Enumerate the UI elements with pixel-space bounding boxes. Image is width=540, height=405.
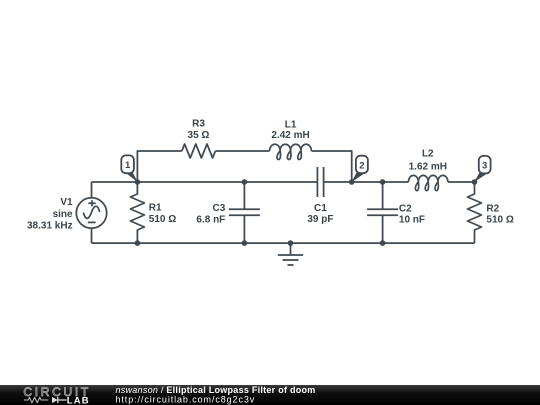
junction node 3 (472, 179, 478, 185)
svg-text:510 Ω: 510 Ω (486, 215, 513, 226)
wire between R3 and L1 (215, 150, 269, 152)
inductor L2 (408, 175, 448, 190)
svg-text:C1: C1 (314, 203, 327, 214)
svg-text:1: 1 (125, 160, 131, 171)
junction C3 top (242, 179, 248, 185)
L1 labels (271, 119, 309, 141)
svg-text:39 pF: 39 pF (307, 214, 333, 225)
inductor L1 (270, 144, 312, 159)
svg-text:L2: L2 (422, 149, 434, 160)
svg-text:L1: L1 (285, 119, 297, 130)
capacitor C1 (317, 167, 323, 197)
svg-text:2.42 mH: 2.42 mH (271, 130, 309, 141)
svg-text:3: 3 (482, 160, 487, 171)
resistor R1 (130, 182, 144, 243)
svg-text:C3: C3 (213, 203, 226, 214)
svg-text:1.62 mH: 1.62 mH (409, 162, 447, 173)
ground (278, 243, 303, 265)
junction C2 bottom (380, 240, 386, 246)
voltage source V1 (76, 198, 106, 228)
wire middle: L2 right to node 3 (448, 181, 475, 183)
junction node 1 (135, 179, 141, 185)
wire middle: C1 right to L2 left (324, 181, 409, 183)
V1 value labels (27, 197, 73, 232)
node label 3 (474, 156, 490, 182)
L2 labels (409, 149, 447, 173)
svg-text:6.8 nF: 6.8 nF (196, 215, 225, 226)
svg-text:R1: R1 (149, 203, 162, 214)
node label 1 (121, 155, 138, 182)
junction R1 bottom (135, 240, 141, 246)
svg-text:R3: R3 (192, 118, 205, 129)
wire L1 to riser node2 (311, 151, 351, 182)
svg-text:2: 2 (359, 160, 364, 171)
resistor R3 (182, 144, 216, 158)
CircuitLab logo (23, 385, 91, 405)
svg-text:nswanson / Elliptical Lowpass: nswanson / Elliptical Lowpass Filter of … (116, 385, 316, 395)
junction ground (288, 240, 294, 246)
svg-text:R2: R2 (486, 204, 499, 215)
capacitor C2 (367, 182, 398, 243)
svg-text:http://circuitlab.com/c8g2c3v: http://circuitlab.com/c8g2c3v (116, 395, 256, 405)
capacitor C3 (229, 182, 260, 243)
svg-text:LAB: LAB (67, 396, 90, 405)
junction node 2 (349, 179, 355, 185)
svg-text:510 Ω: 510 Ω (149, 214, 176, 225)
junction C3 bottom (242, 240, 248, 246)
svg-text:10 nF: 10 nF (399, 215, 425, 226)
wire riser node1 to top branch (137, 151, 181, 182)
svg-text:35 Ω: 35 Ω (188, 130, 210, 141)
junction C2 top (380, 179, 386, 185)
svg-text:sine: sine (53, 209, 73, 220)
R3 labels (188, 118, 210, 140)
wire bottom rail (92, 242, 475, 244)
C3 labels (196, 203, 225, 226)
wire middle: V1 to C1 left (92, 181, 318, 183)
R1 labels (149, 203, 176, 226)
R2 labels (486, 204, 513, 226)
wire V1 bottom lead (91, 228, 93, 243)
C2 labels (399, 204, 425, 226)
node label 2 (351, 156, 368, 183)
svg-text:C2: C2 (399, 204, 412, 215)
footer title text (116, 385, 316, 405)
resistor R2 (468, 182, 482, 243)
svg-text:V1: V1 (60, 197, 73, 208)
wire V1 top lead (91, 182, 93, 198)
footer bar (0, 385, 540, 405)
C1 labels (307, 203, 333, 225)
svg-text:38.31 kHz: 38.31 kHz (27, 221, 73, 232)
